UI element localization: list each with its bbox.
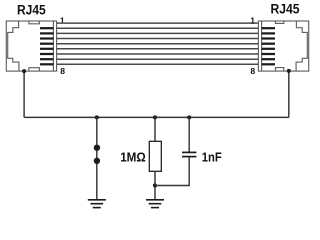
wire: spark gap branch <box>96 117 98 199</box>
wire: shield ground rail <box>24 116 289 118</box>
wire 1 <box>57 27 259 29</box>
node: left shield tap dot <box>22 69 26 73</box>
wire: capacitor branch (top) <box>188 117 190 152</box>
connector J2 bottom latch tab <box>276 68 284 72</box>
connector J1 top latch tab <box>29 21 40 24</box>
wire: capacitor branch (bottom) + link to resistor node <box>155 157 189 186</box>
wire 4 <box>57 43 259 45</box>
connector J2 pin wall <box>261 21 263 71</box>
connector J1 pin wall <box>52 21 54 71</box>
node: resistor/capacitor bottom junction <box>153 183 157 187</box>
resistor R1 body <box>149 141 161 171</box>
svg-text:RJ45: RJ45 <box>271 1 300 17</box>
wire 8 <box>57 63 259 65</box>
connector J1 bottom latch tab <box>29 68 40 71</box>
svg-text:8: 8 <box>250 66 255 76</box>
connector J2 pins 1-8 <box>262 28 275 64</box>
svg-text:RJ45: RJ45 <box>17 2 46 18</box>
spark gap F1 electrode (upper dot) <box>94 145 100 151</box>
node: rail junction to capacitor <box>187 115 191 119</box>
node: rail junction to spark gap <box>95 115 99 119</box>
wire: resistor branch (bottom) <box>154 171 156 199</box>
node: right shield tap dot <box>287 69 291 73</box>
capacitor C1 bottom plate <box>182 156 196 158</box>
svg-text:1MΩ: 1MΩ <box>120 150 146 164</box>
connector J1 pins 1-8 <box>40 28 53 64</box>
svg-text:1: 1 <box>250 15 255 25</box>
connector J1 body outline (left RJ45 jack) <box>6 21 56 71</box>
connector J2 body outline (right RJ45 jack) <box>258 21 308 71</box>
wire 3 <box>57 38 259 40</box>
capacitor C1 top plate <box>182 151 196 153</box>
wire: left shield drop <box>23 71 25 117</box>
ground (middle, under resistor) <box>146 200 164 208</box>
wire: resistor branch (top) <box>154 117 156 141</box>
svg-text:1nF: 1nF <box>202 149 222 164</box>
wire 2 <box>57 32 259 34</box>
wire 6 <box>57 53 259 55</box>
connector J2 jack opening profile <box>296 21 307 71</box>
connector J2 top latch tab <box>276 21 284 23</box>
svg-text:8: 8 <box>60 66 65 76</box>
spark gap F1 electrode (lower dot) <box>94 158 100 164</box>
ground (left, under spark gap) <box>88 200 106 208</box>
wire: right shield drop <box>288 71 290 118</box>
wire 7 <box>57 58 259 60</box>
wire 5 <box>57 48 259 50</box>
cable shield line (top) <box>57 22 259 24</box>
node: rail junction to resistor <box>153 115 157 119</box>
connector J1 jack opening profile <box>8 21 19 71</box>
